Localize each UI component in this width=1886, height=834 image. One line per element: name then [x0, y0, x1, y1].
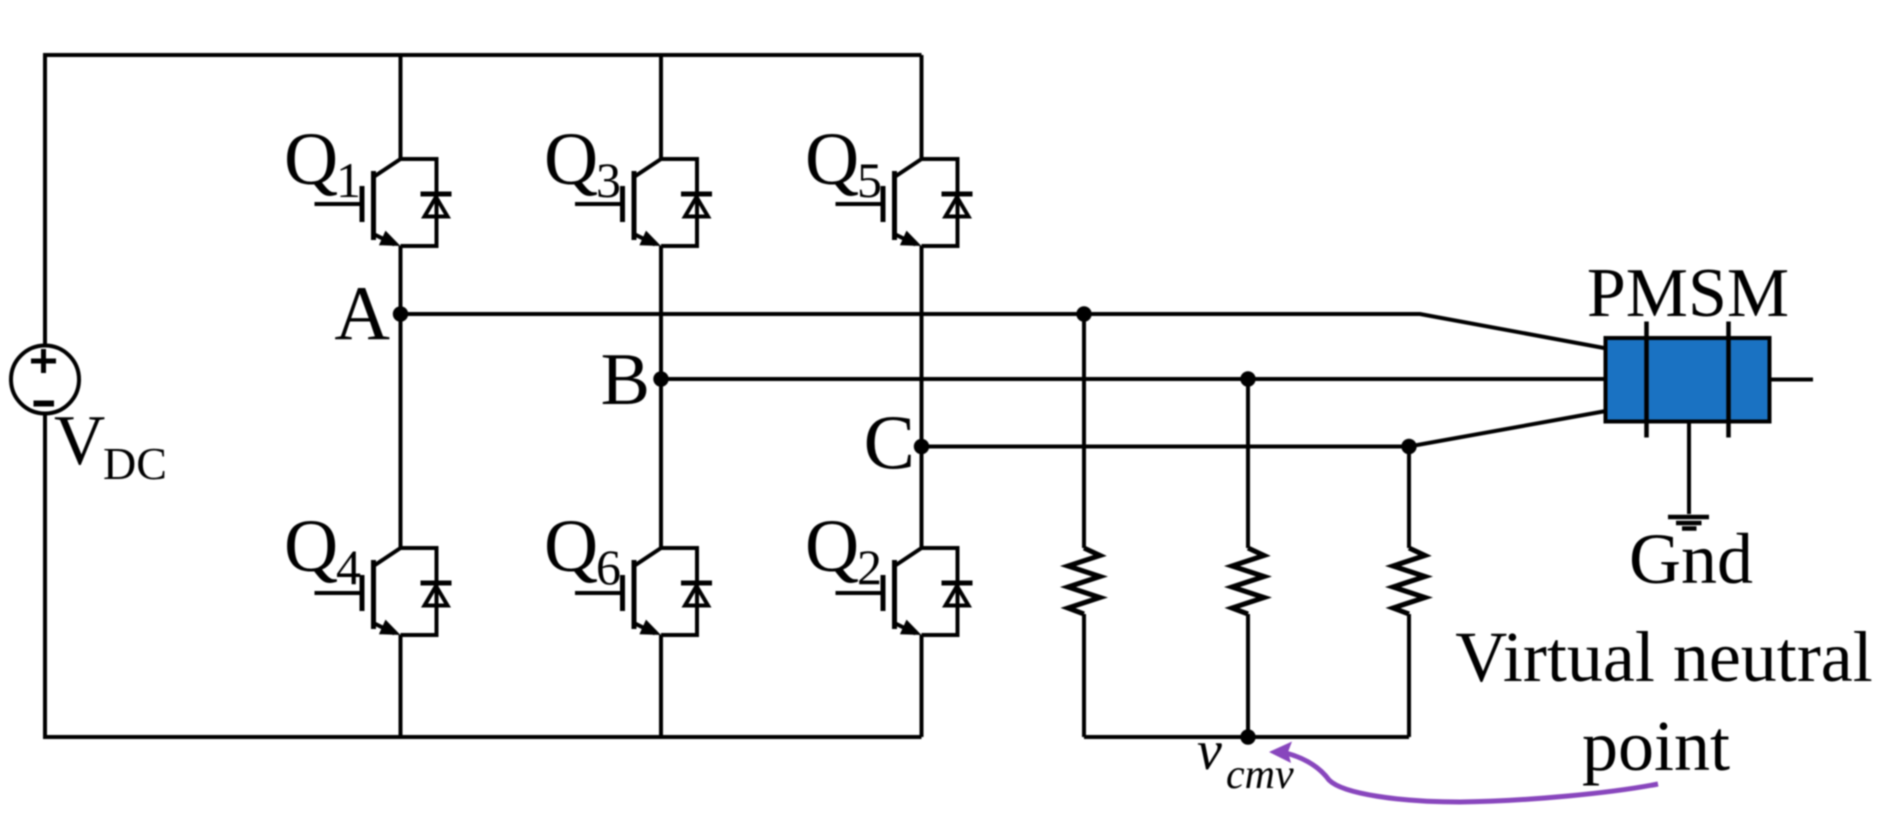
svg-text:v: v: [1197, 720, 1222, 782]
svg-text:B: B: [601, 339, 650, 421]
svg-text:Q: Q: [284, 118, 338, 201]
svg-text:DC: DC: [103, 438, 167, 489]
svg-text:Virtual neutral: Virtual neutral: [1455, 617, 1873, 697]
svg-text:Q: Q: [805, 505, 859, 588]
svg-text:cmv: cmv: [1226, 752, 1294, 798]
svg-text:3: 3: [596, 152, 621, 208]
svg-text:point: point: [1582, 706, 1730, 786]
svg-text:Q: Q: [544, 118, 598, 201]
svg-text:Q: Q: [805, 118, 859, 201]
svg-text:Gnd: Gnd: [1629, 519, 1753, 599]
svg-text:PMSM: PMSM: [1587, 255, 1789, 332]
svg-text:1: 1: [336, 152, 361, 208]
svg-text:V: V: [54, 402, 105, 480]
svg-text:C: C: [864, 399, 915, 485]
svg-text:A: A: [334, 270, 390, 356]
svg-text:Q: Q: [284, 505, 338, 588]
svg-text:Q: Q: [544, 505, 598, 588]
svg-text:6: 6: [596, 539, 621, 595]
svg-text:5: 5: [857, 152, 882, 208]
svg-text:4: 4: [336, 539, 361, 595]
svg-text:2: 2: [857, 539, 882, 595]
